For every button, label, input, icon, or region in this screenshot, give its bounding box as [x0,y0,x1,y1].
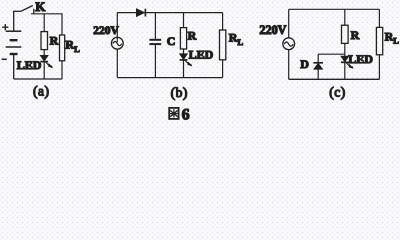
LED3 (c) [341,56,349,79]
wire to resistor R (a) [43,14,45,32]
svg-text:C: C [167,34,176,48]
diode D (c) [313,63,323,80]
svg-text:220V: 220V [259,23,286,37]
wire RL to bottom (a) [61,61,63,79]
wire top to R (c) [344,9,346,25]
top wire (c) [289,8,380,10]
battery plus sign [2,24,8,30]
resistor RL (a) [60,35,65,61]
wire source up to top wire (b) [116,13,118,38]
wire top-right corner down to RL (c) [378,9,380,27]
resistor RL (c) [376,27,382,54]
wire R to LED (b) [183,49,185,54]
LED3 emission arrows [346,63,353,69]
svg-text:(b): (b) [171,85,188,100]
switch K [13,6,34,14]
resistor R (a) [41,32,48,50]
caption figure 6 glyph [169,108,178,119]
resistor RL (b) [220,30,226,60]
wire top to R (b) [183,13,185,28]
wire RL to bottom (c) [378,55,380,80]
AC source (c) [283,38,295,50]
svg-text:(c): (c) [329,85,345,100]
wire top-right corner down to RL (b) [222,13,224,30]
AC source (b) [111,37,123,49]
svg-text:6: 6 [182,106,190,123]
resistor R (b) [180,28,186,49]
capacitor C [149,40,161,44]
svg-text:RL: RL [229,31,244,47]
wire top to capacitor (b) [154,13,156,39]
bottom wire (c) [289,78,380,80]
wire R to LED node (c) [344,43,346,56]
wire RL to bottom (b) [222,60,224,78]
wire node to diode D branch (c) [318,53,345,55]
svg-text:R: R [351,28,360,42]
svg-text:RL: RL [65,38,80,54]
resistor R (c) [342,25,349,43]
wire source up to top wire (c) [288,9,290,38]
svg-text:D: D [300,57,309,71]
svg-text:LED: LED [348,52,373,66]
wire source down to bottom wire (b) [116,49,118,78]
rectifier diode (b) [136,9,145,17]
battery minus sign [2,58,7,60]
bottom wire (a) [14,78,62,80]
svg-text:RL: RL [385,29,400,45]
svg-text:(a): (a) [33,83,49,98]
svg-text:LED: LED [17,58,42,72]
top wire (a) [31,13,62,15]
wire battery bottom to bottom-left corner [13,55,15,80]
wire source down to bottom (c) [288,50,290,80]
svg-text:LED: LED [189,48,214,62]
top wire (b) [117,12,222,14]
wire top-right corner down to RL (a) [61,14,63,35]
LED1 emission arrows [46,62,53,68]
bottom wire (b) [117,77,222,79]
LED2 (b) [180,54,188,78]
wire R to LED (a) [43,50,45,56]
LED1 (a) [40,55,48,79]
LED2 emission arrows [185,60,192,66]
svg-text:220V: 220V [93,25,119,37]
svg-text:R: R [188,28,197,42]
svg-text:K: K [35,0,46,14]
svg-text:R: R [50,33,59,47]
wire down to diode D (c) [317,54,319,62]
battery B1 [6,11,22,54]
wire capacitor to bottom (b) [154,45,156,78]
